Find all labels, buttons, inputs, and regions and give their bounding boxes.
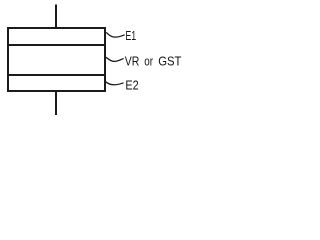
- layer boundary VR / E2: [7, 74, 106, 76]
- svg-text:E1: E1: [125, 29, 136, 43]
- svg-text:or: or: [144, 55, 153, 69]
- device outline box: [8, 28, 105, 91]
- svg-text:E2: E2: [125, 79, 138, 93]
- top electrode wire: [55, 5, 57, 29]
- leader line to E2: [106, 82, 124, 85]
- leader line to E1: [106, 32, 124, 37]
- svg-text:VR: VR: [125, 55, 140, 69]
- bottom electrode wire: [55, 91, 57, 115]
- svg-text:GST: GST: [158, 55, 182, 69]
- layer boundary E1 / VR: [7, 44, 106, 46]
- leader line to VR or GST: [106, 57, 124, 61]
